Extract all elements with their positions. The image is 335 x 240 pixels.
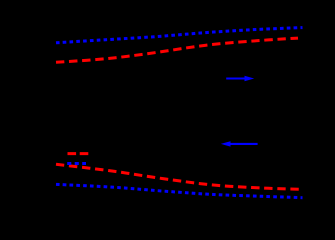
legend red dashed sample <box>68 152 90 155</box>
right-pointing blue arrow annotation <box>226 76 254 82</box>
bottom blue dotted curve <box>56 184 303 197</box>
top red dashed curve <box>56 38 298 62</box>
legend blue dotted sample <box>67 162 86 165</box>
bottom red dashed curve <box>56 164 299 189</box>
top blue dotted curve <box>56 28 303 43</box>
left-pointing blue arrow annotation <box>221 141 258 146</box>
